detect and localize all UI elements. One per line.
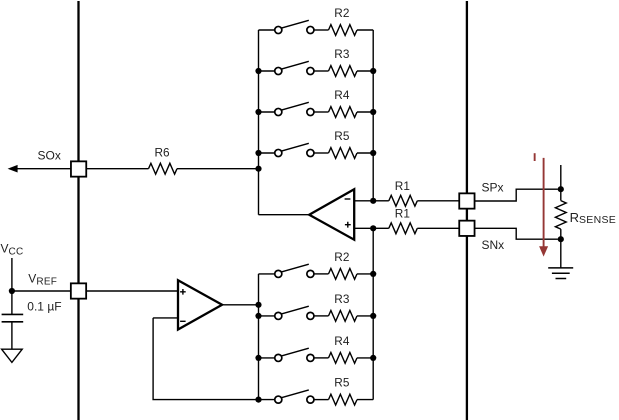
wire lower R3 row left stub bbox=[259, 315, 276, 317]
junction dot left rail lower R4 bbox=[255, 355, 261, 361]
switch S9 lever bbox=[281, 390, 309, 398]
svg-text:SOx: SOx bbox=[38, 148, 61, 162]
switch S8 contact circle right bbox=[307, 354, 314, 361]
junction dot left rail R5 bbox=[255, 150, 261, 156]
svg-text:R2: R2 bbox=[334, 250, 349, 264]
wire R5 to right rail bbox=[357, 152, 373, 154]
wire upper bank left rail bbox=[258, 30, 260, 215]
svg-text:R5: R5 bbox=[334, 129, 350, 143]
wire S5 to R5 bbox=[314, 152, 329, 154]
resistor R3 bbox=[329, 66, 357, 77]
wire lower R2 row left stub bbox=[259, 273, 276, 275]
op-amp U2 minus sign bbox=[180, 320, 186, 322]
junction dot U2 output bbox=[255, 302, 261, 308]
wire R4 to right rail bbox=[357, 111, 373, 113]
svg-text:R3: R3 bbox=[334, 292, 350, 306]
switch S6 contact circle left bbox=[275, 270, 282, 277]
junction dot right rail lower R3 bbox=[370, 313, 376, 319]
junction dot right rail lower R4 bbox=[370, 355, 376, 361]
op-amp U1 plus sign bbox=[345, 222, 351, 228]
junction dot U1 inverting input bbox=[370, 198, 376, 204]
wire U1 output to left rail bbox=[259, 214, 310, 216]
svg-text:R4: R4 bbox=[334, 334, 350, 348]
wire VREF square to op-amp U2 bbox=[86, 290, 178, 292]
wire lower R5 to right rail bbox=[357, 399, 373, 401]
wire lower R3 to right rail bbox=[357, 315, 373, 317]
junction dot VREF node bbox=[9, 288, 15, 294]
svg-text:SPx: SPx bbox=[482, 181, 504, 195]
wire to R1 bottom bbox=[373, 227, 389, 229]
wire lower R5 row left stub bbox=[259, 399, 276, 401]
wire S8 to lower R4 bbox=[314, 357, 329, 359]
wire S7 to lower R3 bbox=[314, 315, 329, 317]
svg-text:RSENSE: RSENSE bbox=[570, 210, 617, 226]
node VREF square bbox=[71, 283, 86, 298]
junction dot left rail R3 bbox=[255, 68, 261, 74]
svg-text:VCC: VCC bbox=[1, 242, 24, 258]
wire S9 to lower R5 bbox=[314, 399, 329, 401]
resistor R5 bbox=[329, 148, 357, 159]
resistor R4 lower bbox=[329, 353, 357, 364]
op-amp U1 bbox=[309, 189, 354, 240]
wire Rsense to ground bbox=[560, 239, 562, 268]
junction dot right rail R3 bbox=[370, 68, 376, 74]
junction dot right rail lower R2 bbox=[370, 271, 376, 277]
op-amp U2 bbox=[178, 280, 222, 329]
wire VREF node to square bbox=[12, 290, 71, 292]
wire U1 inverting input bbox=[354, 200, 373, 202]
switch S2 contact circle right bbox=[307, 26, 314, 33]
wire U2 inverting input stub bbox=[153, 317, 178, 319]
svg-text:SNx: SNx bbox=[482, 238, 505, 252]
label I bbox=[534, 153, 536, 161]
resistor R3 lower bbox=[329, 311, 357, 322]
op-amp U1 minus sign bbox=[345, 198, 351, 200]
wire R3 to right rail bbox=[357, 70, 373, 72]
junction dot left rail R4 bbox=[255, 109, 261, 115]
junction dot left rail R6 bbox=[255, 166, 261, 172]
node SNx square bbox=[459, 221, 474, 236]
right bus vertical line bbox=[466, 1, 468, 420]
wire R1 bottom to SNx square bbox=[417, 227, 459, 229]
wire SNx to Rsense bottom bbox=[475, 228, 558, 239]
switch S7 contact circle right bbox=[307, 312, 314, 319]
wire upper bank right rail bbox=[372, 30, 374, 201]
switch S4 contact circle right bbox=[307, 108, 314, 115]
wire R6 to upper bank left rail bbox=[177, 168, 259, 170]
wire lower R4 to right rail bbox=[357, 357, 373, 359]
junction dot Rsense bottom bbox=[558, 236, 564, 242]
wire S6 to lower R2 bbox=[314, 273, 329, 275]
wire lower bank left rail bbox=[258, 274, 260, 400]
wire VCC down through node bbox=[11, 258, 13, 314]
svg-text:R6: R6 bbox=[155, 146, 171, 160]
capacitor C1 bbox=[2, 314, 24, 321]
switch S7 contact circle left bbox=[275, 312, 282, 319]
wire U2 output bbox=[222, 304, 258, 306]
svg-text:VREF: VREF bbox=[28, 272, 57, 288]
wire lower bank right rail bbox=[372, 228, 374, 399]
ground earth symbol bbox=[548, 268, 573, 279]
junction dot left rail lower R3 bbox=[255, 313, 261, 319]
junction dot left rail lower R5 bbox=[255, 397, 261, 403]
wire SOx square to R6 bbox=[86, 168, 148, 170]
switch S8 lever bbox=[281, 348, 309, 356]
switch S2 lever bbox=[281, 20, 309, 28]
wire stub above Rsense bbox=[560, 165, 562, 189]
wire U1 non-inverting input bbox=[354, 227, 373, 229]
resistor R4 bbox=[329, 107, 357, 118]
wire to R1 top bbox=[373, 200, 389, 202]
wire capacitor to ground bbox=[11, 322, 13, 349]
resistor R2 bbox=[329, 25, 357, 36]
svg-text:R1: R1 bbox=[395, 207, 410, 221]
switch S6 lever bbox=[281, 264, 309, 272]
svg-text:R2: R2 bbox=[334, 6, 349, 20]
switch S3 lever bbox=[281, 61, 309, 69]
switch S9 contact circle right bbox=[307, 396, 314, 403]
switch S7 lever bbox=[281, 306, 309, 314]
junction dot U1 non-inverting input bbox=[370, 225, 376, 231]
wire lower R2 to right rail bbox=[357, 273, 373, 275]
switch S8 contact circle left bbox=[275, 354, 282, 361]
left bus vertical line bbox=[77, 1, 79, 420]
switch S3 contact circle right bbox=[307, 67, 314, 74]
op-amp U2 plus sign bbox=[180, 289, 186, 295]
switch S5 lever bbox=[281, 143, 309, 151]
node SPx square bbox=[459, 193, 474, 208]
ground signal triangle bbox=[2, 349, 23, 362]
wire R1 top to SPx square bbox=[417, 200, 459, 202]
wire S4 to R4 bbox=[314, 111, 329, 113]
switch S4 lever bbox=[281, 102, 309, 110]
svg-text:R4: R4 bbox=[334, 88, 350, 102]
resistor R5 lower bbox=[329, 394, 357, 405]
resistor RSENSE bbox=[555, 201, 566, 230]
wire U2 feedback path bbox=[153, 318, 258, 400]
wire R3 row left stub bbox=[259, 70, 276, 72]
wire SPx to Rsense top bbox=[475, 189, 558, 201]
svg-text:R3: R3 bbox=[334, 47, 350, 61]
switch S2 contact circle left bbox=[275, 26, 282, 33]
switch S5 contact circle left bbox=[275, 149, 282, 156]
current arrowhead bbox=[539, 246, 548, 256]
node SOx square bbox=[71, 161, 86, 176]
wire R2 row left stub bbox=[259, 29, 276, 31]
resistor R6 bbox=[149, 163, 178, 174]
resistor R2 lower bbox=[329, 269, 357, 280]
junction dot Rsense top bbox=[558, 186, 564, 192]
wire S2 to R2 bbox=[314, 29, 329, 31]
wire Rsense bottom lead bbox=[560, 229, 562, 239]
resistor R1 bottom bbox=[389, 223, 417, 234]
wire R5 row left stub bbox=[259, 152, 276, 154]
current arrow I bbox=[543, 158, 545, 247]
svg-text:0.1 µF: 0.1 µF bbox=[27, 300, 61, 314]
switch S4 contact circle left bbox=[275, 108, 282, 115]
switch S5 contact circle right bbox=[307, 149, 314, 156]
wire R4 row left stub bbox=[259, 111, 276, 113]
switch S3 contact circle left bbox=[275, 67, 282, 74]
junction dot right rail R4 bbox=[370, 109, 376, 115]
wire Rsense top lead bbox=[560, 189, 562, 200]
wire SOx arrow line bbox=[16, 168, 71, 170]
svg-text:R1: R1 bbox=[395, 179, 410, 193]
SOx arrowhead bbox=[8, 165, 18, 173]
wire S3 to R3 bbox=[314, 70, 329, 72]
wire R2 to right rail bbox=[357, 29, 373, 31]
resistor R1 top bbox=[389, 195, 417, 206]
junction dot right rail R5 bbox=[370, 150, 376, 156]
wire lower R4 row left stub bbox=[259, 357, 276, 359]
svg-text:R5: R5 bbox=[334, 376, 350, 390]
switch S9 contact circle left bbox=[275, 396, 282, 403]
switch S6 contact circle right bbox=[307, 270, 314, 277]
